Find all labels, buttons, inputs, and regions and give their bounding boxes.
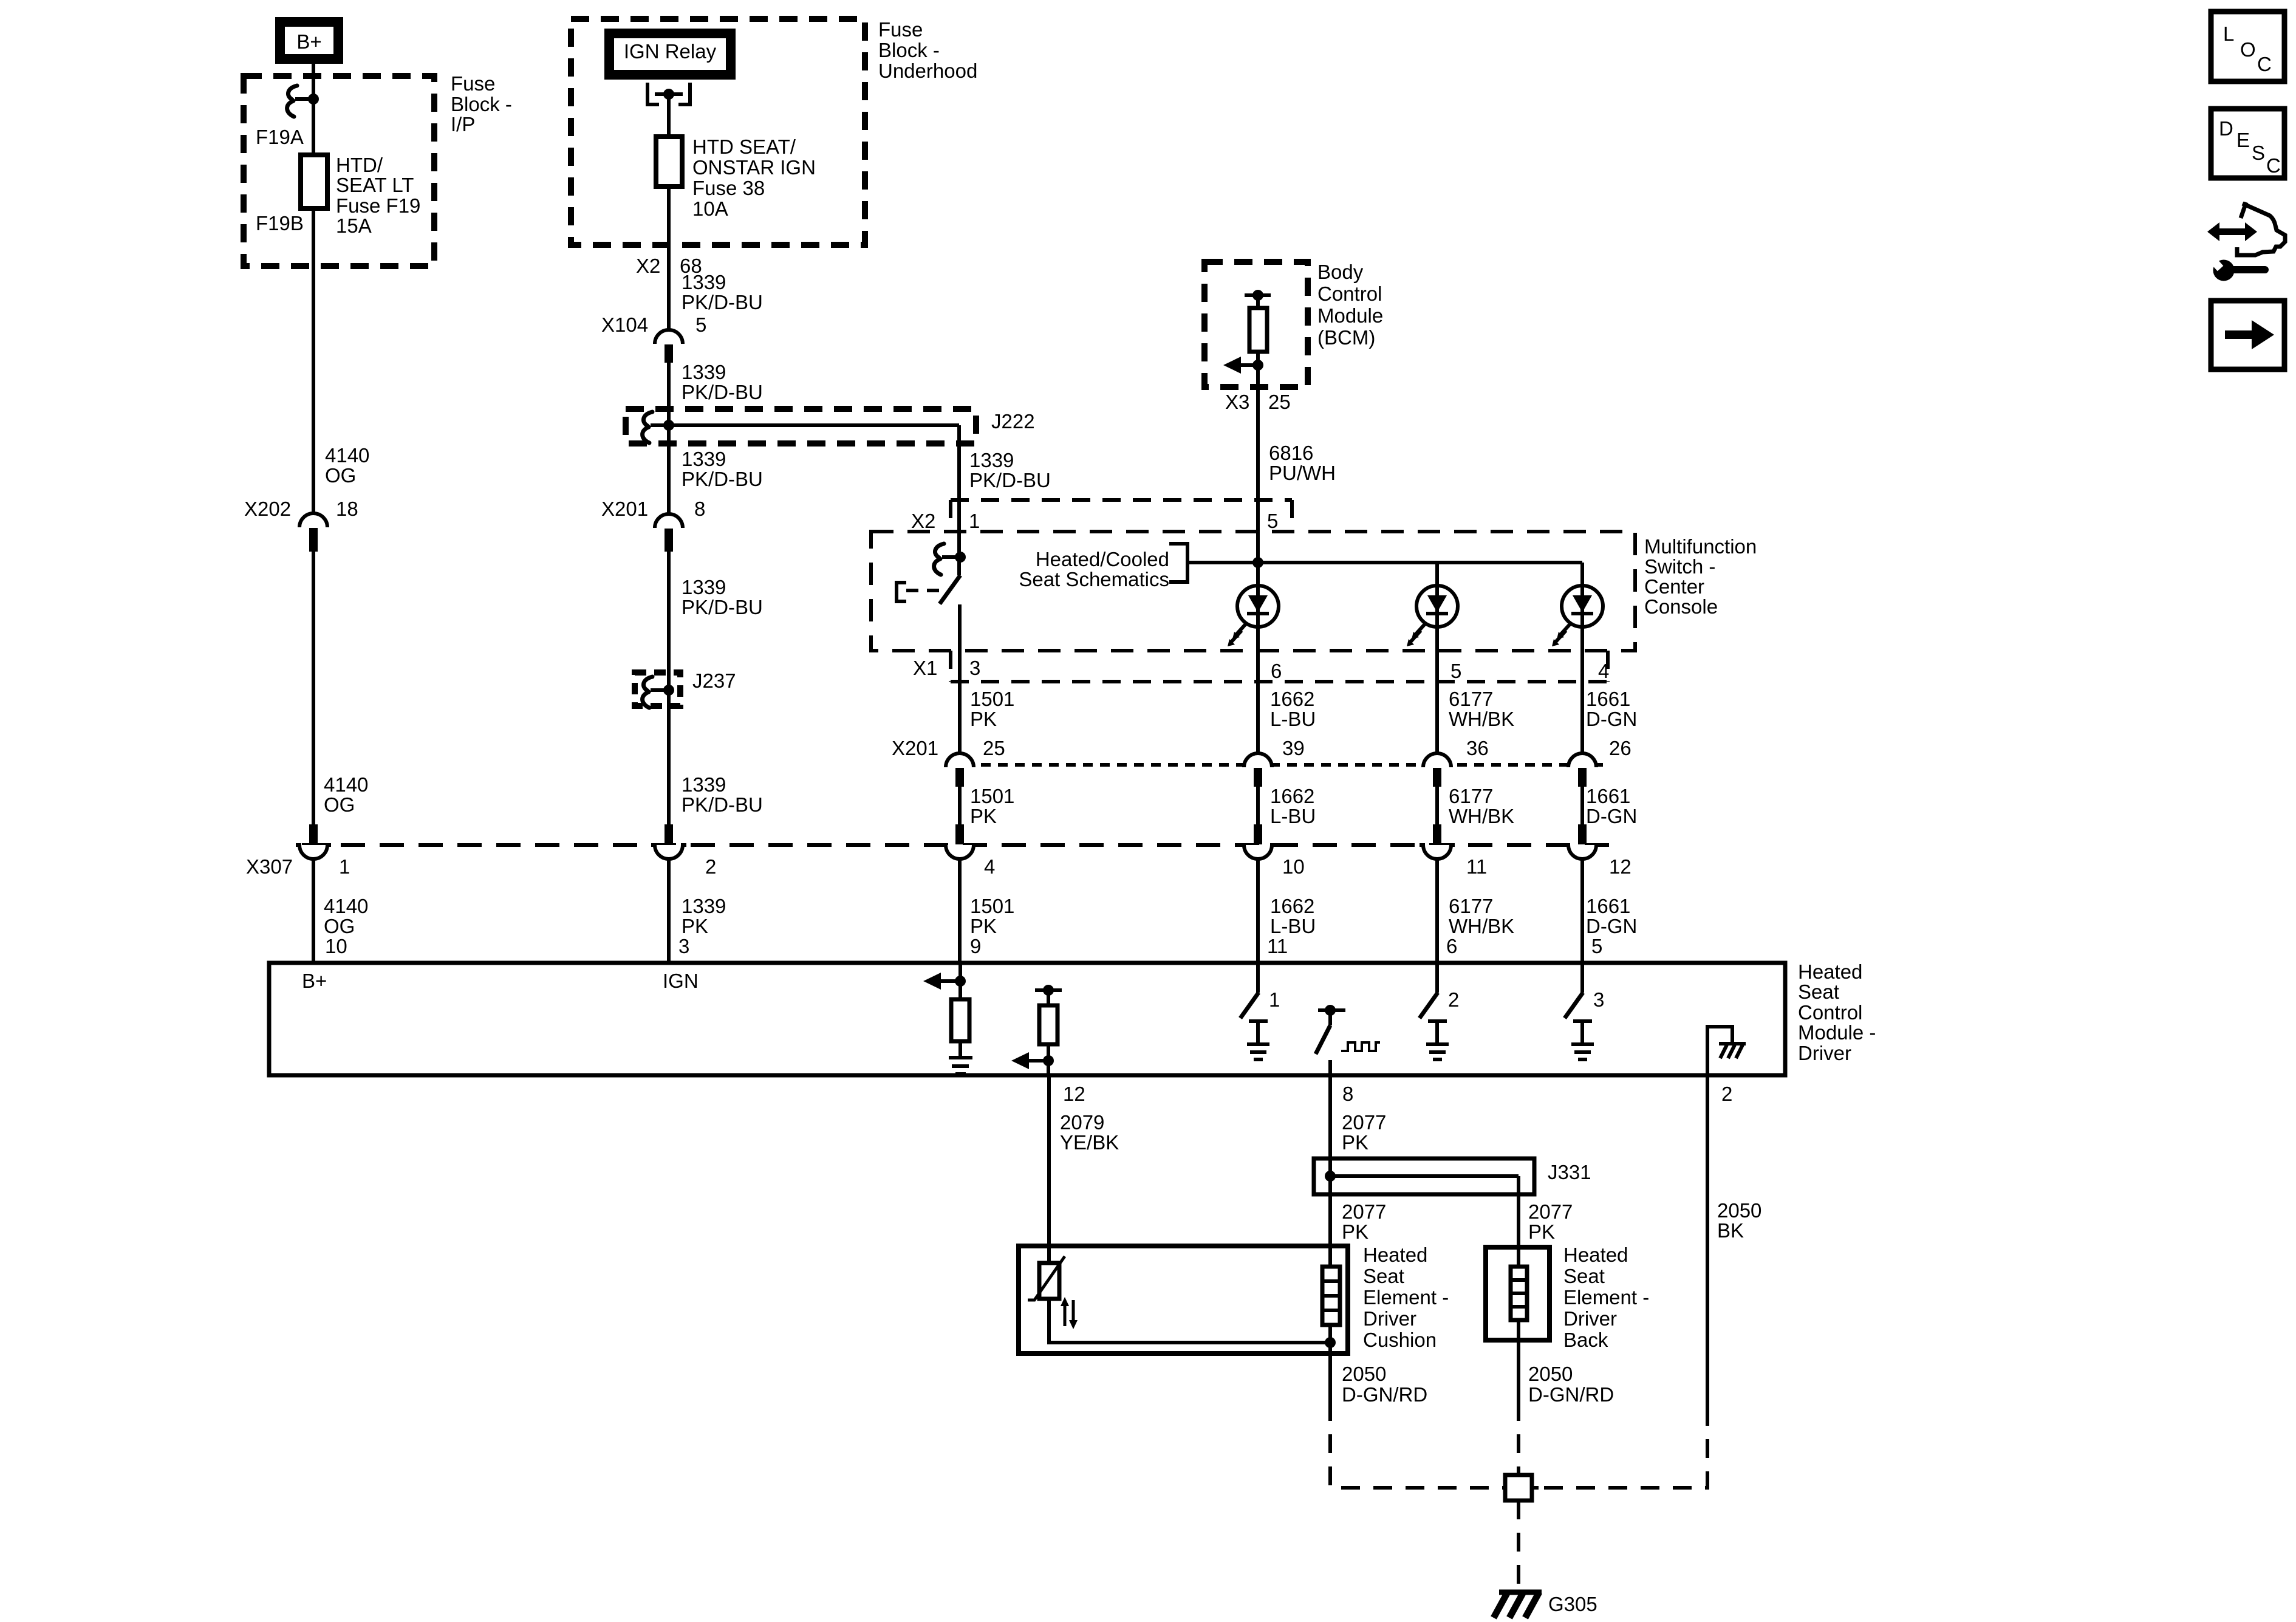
svg-text:D: D: [2219, 117, 2233, 140]
svg-text:39: 39: [1282, 737, 1305, 759]
svg-text:10: 10: [1282, 855, 1305, 878]
svg-text:3: 3: [1593, 988, 1604, 1011]
svg-text:X2: X2: [911, 510, 935, 532]
svg-text:Driver: Driver: [1563, 1307, 1617, 1330]
svg-text:4: 4: [984, 855, 995, 878]
svg-text:PK/D-BU: PK/D-BU: [682, 596, 763, 618]
svg-text:6: 6: [1271, 660, 1282, 682]
svg-text:5: 5: [1591, 935, 1602, 957]
svg-text:E: E: [2236, 129, 2250, 151]
svg-text:PK/D-BU: PK/D-BU: [682, 793, 763, 816]
svg-text:Control: Control: [1798, 1001, 1862, 1024]
svg-text:PK: PK: [682, 915, 708, 937]
svg-text:(BCM): (BCM): [1317, 326, 1375, 349]
svg-text:WH/BK: WH/BK: [1449, 708, 1514, 730]
svg-text:6177: 6177: [1449, 785, 1493, 807]
svg-text:BK: BK: [1717, 1219, 1744, 1242]
svg-text:Element -: Element -: [1363, 1286, 1449, 1309]
svg-text:8: 8: [1342, 1083, 1353, 1105]
svg-text:1339: 1339: [682, 895, 726, 917]
svg-text:L-BU: L-BU: [1270, 915, 1316, 937]
svg-text:11: 11: [1466, 855, 1487, 878]
svg-text:1339: 1339: [682, 271, 726, 293]
svg-text:1661: 1661: [1586, 688, 1630, 710]
svg-text:IGN Relay: IGN Relay: [624, 40, 717, 63]
svg-text:L: L: [2223, 22, 2234, 45]
svg-text:1501: 1501: [970, 688, 1014, 710]
svg-text:2079: 2079: [1060, 1111, 1104, 1134]
svg-text:Body: Body: [1317, 261, 1364, 283]
svg-text:Heated: Heated: [1563, 1244, 1628, 1266]
svg-text:4140: 4140: [324, 895, 368, 917]
svg-text:Multifunction: Multifunction: [1644, 535, 1757, 558]
svg-text:18: 18: [336, 498, 358, 520]
svg-text:Driver: Driver: [1798, 1042, 1851, 1064]
svg-text:11: 11: [1267, 935, 1288, 957]
svg-text:3: 3: [678, 935, 689, 957]
svg-text:X201: X201: [601, 498, 648, 520]
svg-text:4140: 4140: [324, 773, 368, 796]
svg-text:1661: 1661: [1586, 895, 1630, 917]
svg-text:10: 10: [325, 935, 347, 957]
svg-text:L-BU: L-BU: [1270, 805, 1316, 827]
svg-text:B+: B+: [302, 970, 327, 992]
svg-text:X3: X3: [1225, 391, 1249, 413]
svg-text:6177: 6177: [1449, 688, 1493, 710]
svg-text:9: 9: [970, 935, 981, 957]
svg-text:Underhood: Underhood: [878, 60, 977, 82]
svg-text:X104: X104: [601, 313, 648, 336]
svg-text:1662: 1662: [1270, 688, 1314, 710]
svg-text:3: 3: [969, 657, 980, 679]
svg-text:Fuse 38: Fuse 38: [692, 177, 765, 199]
svg-text:S: S: [2252, 142, 2265, 164]
svg-text:6816: 6816: [1269, 442, 1313, 464]
svg-text:Control: Control: [1317, 282, 1382, 305]
svg-text:Back: Back: [1563, 1329, 1608, 1351]
svg-text:2: 2: [1448, 988, 1459, 1011]
svg-text:2077: 2077: [1528, 1200, 1573, 1223]
svg-text:Seat Schematics: Seat Schematics: [1019, 568, 1169, 590]
svg-text:1: 1: [1269, 988, 1280, 1011]
svg-text:D-GN: D-GN: [1586, 915, 1637, 937]
svg-text:X1: X1: [913, 657, 937, 679]
svg-text:PU/WH: PU/WH: [1269, 462, 1336, 484]
svg-text:Fuse: Fuse: [878, 18, 923, 41]
svg-text:2050: 2050: [1717, 1199, 1761, 1222]
svg-text:1339: 1339: [682, 576, 726, 598]
svg-text:5: 5: [1267, 510, 1278, 532]
svg-text:X2: X2: [636, 255, 660, 277]
svg-text:X202: X202: [244, 498, 291, 520]
svg-text:2: 2: [1721, 1083, 1732, 1105]
svg-text:D-GN: D-GN: [1586, 708, 1637, 730]
svg-text:1339: 1339: [682, 773, 726, 796]
svg-text:Switch -: Switch -: [1644, 555, 1715, 578]
svg-text:Heated: Heated: [1363, 1244, 1427, 1266]
svg-text:4: 4: [1598, 660, 1609, 682]
svg-text:6177: 6177: [1449, 895, 1493, 917]
svg-text:1339: 1339: [682, 448, 726, 470]
svg-text:J222: J222: [991, 410, 1035, 433]
svg-text:12: 12: [1063, 1083, 1085, 1105]
svg-text:5: 5: [695, 313, 706, 336]
svg-text:Element -: Element -: [1563, 1286, 1649, 1309]
svg-text:2050: 2050: [1342, 1363, 1386, 1385]
svg-text:C: C: [2257, 53, 2272, 75]
svg-text:10A: 10A: [692, 197, 728, 220]
svg-text:Block -: Block -: [451, 93, 512, 115]
svg-text:D-GN/RD: D-GN/RD: [1342, 1383, 1427, 1406]
svg-text:1501: 1501: [970, 895, 1014, 917]
svg-text:PK: PK: [970, 805, 997, 827]
svg-text:PK/D-BU: PK/D-BU: [682, 291, 763, 313]
svg-text:PK: PK: [970, 915, 997, 937]
svg-text:4140: 4140: [325, 444, 369, 467]
svg-text:Seat: Seat: [1563, 1265, 1605, 1287]
svg-text:8: 8: [694, 498, 705, 520]
svg-text:Heated/Cooled: Heated/Cooled: [1036, 548, 1169, 570]
svg-text:36: 36: [1466, 737, 1489, 759]
svg-text:Fuse: Fuse: [451, 72, 495, 95]
svg-text:OG: OG: [324, 915, 355, 937]
svg-text:Console: Console: [1644, 595, 1718, 618]
svg-text:X201: X201: [892, 737, 938, 759]
svg-text:PK: PK: [1342, 1220, 1368, 1243]
svg-text:Block -: Block -: [878, 39, 940, 61]
svg-text:F19B: F19B: [256, 212, 304, 234]
svg-text:PK: PK: [1528, 1220, 1555, 1243]
svg-text:1: 1: [969, 510, 980, 532]
svg-text:ONSTAR IGN: ONSTAR IGN: [692, 156, 816, 179]
svg-text:Fuse F19: Fuse F19: [336, 194, 420, 217]
svg-text:L-BU: L-BU: [1270, 708, 1316, 730]
svg-text:PK/D-BU: PK/D-BU: [682, 468, 763, 490]
svg-text:HTD SEAT/: HTD SEAT/: [692, 135, 796, 158]
svg-text:Seat: Seat: [1798, 980, 1839, 1003]
svg-text:25: 25: [1268, 391, 1291, 413]
svg-text:5: 5: [1450, 660, 1461, 682]
svg-text:O: O: [2240, 38, 2256, 61]
svg-text:SEAT LT: SEAT LT: [336, 174, 414, 196]
svg-text:1339: 1339: [682, 361, 726, 383]
svg-text:D-GN: D-GN: [1586, 805, 1637, 827]
svg-text:Module -: Module -: [1798, 1021, 1876, 1044]
svg-text:B+: B+: [296, 30, 321, 53]
svg-text:Seat: Seat: [1363, 1265, 1404, 1287]
svg-text:1339: 1339: [969, 449, 1014, 471]
svg-text:26: 26: [1609, 737, 1631, 759]
svg-text:15A: 15A: [336, 214, 372, 237]
svg-text:PK: PK: [1342, 1131, 1368, 1154]
svg-text:I/P: I/P: [451, 113, 475, 135]
svg-text:C: C: [2266, 154, 2281, 177]
svg-text:PK/D-BU: PK/D-BU: [682, 381, 763, 403]
svg-text:X307: X307: [246, 855, 293, 878]
svg-text:1662: 1662: [1270, 895, 1314, 917]
svg-text:J331: J331: [1548, 1161, 1591, 1183]
svg-text:OG: OG: [324, 793, 355, 816]
svg-text:OG: OG: [325, 464, 356, 487]
svg-text:Driver: Driver: [1363, 1307, 1416, 1330]
svg-text:6: 6: [1446, 935, 1457, 957]
svg-text:2077: 2077: [1342, 1111, 1386, 1134]
svg-text:D-GN/RD: D-GN/RD: [1528, 1383, 1614, 1406]
svg-text:1662: 1662: [1270, 785, 1314, 807]
svg-text:2050: 2050: [1528, 1363, 1573, 1385]
svg-text:WH/BK: WH/BK: [1449, 805, 1514, 827]
svg-text:1661: 1661: [1586, 785, 1630, 807]
svg-text:Center: Center: [1644, 575, 1704, 598]
svg-text:WH/BK: WH/BK: [1449, 915, 1514, 937]
svg-text:12: 12: [1609, 855, 1631, 878]
svg-text:2: 2: [705, 855, 716, 878]
svg-text:1501: 1501: [970, 785, 1014, 807]
svg-text:PK: PK: [970, 708, 997, 730]
svg-text:YE/BK: YE/BK: [1060, 1131, 1119, 1154]
svg-text:1: 1: [339, 855, 350, 878]
svg-text:HTD/: HTD/: [336, 154, 383, 176]
svg-text:2077: 2077: [1342, 1200, 1386, 1223]
svg-text:J237: J237: [692, 669, 736, 692]
svg-text:25: 25: [983, 737, 1005, 759]
svg-text:IGN: IGN: [663, 970, 699, 992]
svg-text:Cushion: Cushion: [1363, 1329, 1437, 1351]
svg-text:PK/D-BU: PK/D-BU: [969, 469, 1051, 491]
svg-text:Module: Module: [1317, 304, 1383, 327]
svg-text:Heated: Heated: [1798, 960, 1862, 983]
svg-text:G305: G305: [1548, 1593, 1597, 1615]
svg-text:F19A: F19A: [256, 126, 304, 148]
